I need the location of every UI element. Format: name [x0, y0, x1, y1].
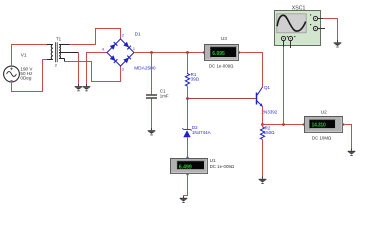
value label U3 DC: [209, 63, 234, 68]
resistor R1: [185, 73, 189, 86]
wire scope probe to emitter rail: [283, 47, 285, 125]
wire R1 to zener node: [187, 86, 189, 129]
label V1: [21, 53, 27, 58]
svg-text:DC 1e-009Ω: DC 1e-009Ω: [209, 63, 234, 68]
label U2: [321, 110, 327, 115]
svg-text:1mF: 1mF: [160, 94, 169, 99]
wire C1 to ground: [151, 99, 153, 128]
value label U1 DC: [210, 164, 235, 169]
wire base node to Q1 base: [188, 98, 256, 100]
ground below C1: [148, 128, 156, 135]
label T1: [56, 36, 62, 41]
label D1: [135, 31, 141, 37]
junction base node: [186, 97, 189, 100]
svg-text:D1: D1: [135, 31, 141, 37]
svg-text:150Ω: 150Ω: [264, 130, 276, 135]
resistor R2: [260, 127, 264, 140]
svg-text:4: 4: [102, 47, 104, 51]
svg-text:2N3392: 2N3392: [262, 110, 278, 115]
bridge pin 3 label: [122, 68, 124, 72]
svg-text:6.499: 6.499: [179, 165, 192, 171]
label D2: [192, 125, 198, 130]
svg-text:1N4744A: 1N4744A: [192, 130, 211, 135]
value label 50 Hz: [20, 71, 33, 76]
svg-text:2: 2: [55, 63, 58, 68]
multimeter U1: [171, 157, 208, 175]
wire V1 bottom to transformer primary bottom: [12, 60, 48, 92]
ground below U1: [180, 196, 188, 203]
value label MDA2500: [134, 66, 156, 72]
label R1: [191, 72, 197, 77]
wire emitter to R2: [262, 125, 264, 127]
wire Q1 emitter to rail: [262, 107, 264, 125]
bridge rectifier D1: [107, 39, 134, 66]
svg-text:2: 2: [122, 33, 124, 37]
label Q1: [264, 85, 271, 90]
svg-text:14.310: 14.310: [312, 123, 327, 129]
ground right of U2: [348, 149, 356, 156]
transistor Q1: [257, 87, 263, 107]
wire R2 to ground: [262, 139, 264, 176]
svg-text:3: 3: [122, 68, 124, 72]
multimeter U3: [203, 45, 240, 61]
wire bridge output rail to U3: [134, 52, 205, 54]
value label U2 DC: [312, 135, 332, 140]
wire V1 top to transformer primary top: [12, 45, 48, 67]
capacitor C1: [146, 95, 157, 98]
svg-text:U2: U2: [321, 110, 327, 115]
transformer pin label 2: [55, 63, 58, 68]
svg-text:XSC1: XSC1: [292, 5, 306, 11]
wire center tap to ground: [78, 53, 80, 84]
ground scope: [334, 40, 342, 47]
junction probe: [282, 123, 285, 126]
junction emitter: [261, 123, 264, 126]
wire U1 to ground: [184, 175, 188, 195]
svg-text:DC 10MΩ: DC 10MΩ: [312, 135, 332, 140]
value label 1mF: [160, 94, 169, 99]
multimeter U2: [303, 117, 344, 133]
wire U2 to ground: [344, 125, 351, 149]
wire secondary bottom to bridge bottom: [65, 62, 121, 82]
wire bridge left output to ground: [87, 53, 108, 84]
svg-text:T1: T1: [56, 36, 62, 41]
junction C1: [150, 51, 153, 54]
value label 2N3392: [262, 110, 278, 115]
wire rail to C1: [151, 53, 153, 95]
ground center tap: [75, 84, 83, 91]
label U1: [210, 158, 216, 163]
label C1: [160, 89, 166, 94]
ground below R2: [259, 177, 267, 184]
svg-text:39Ω: 39Ω: [191, 76, 200, 81]
label R2: [265, 125, 271, 130]
oscilloscope XSC1: [275, 11, 326, 49]
value label 0Deg: [20, 76, 31, 81]
wire rail to R1: [187, 53, 189, 73]
svg-text:1: 1: [133, 47, 135, 51]
wire emitter rail to U2: [263, 124, 305, 126]
ground bridge negative: [83, 84, 91, 91]
label U3: [221, 36, 227, 41]
svg-text:MDA2500: MDA2500: [134, 66, 156, 72]
wire scope ground terminal: [323, 19, 338, 41]
bridge pin 1 label: [133, 47, 135, 51]
wire secondary top to bridge top: [70, 29, 121, 45]
svg-text:Q1: Q1: [264, 85, 271, 90]
svg-text:0Deg: 0Deg: [20, 76, 31, 81]
svg-text:U1: U1: [210, 158, 216, 163]
bridge pin 4 label: [102, 47, 104, 51]
value label 39ohm: [191, 76, 200, 81]
transformer T1: [47, 42, 79, 62]
value label 1N4744A: [192, 130, 211, 135]
value label 190 V: [20, 66, 33, 71]
junction R1: [186, 51, 189, 54]
label XSC1: [292, 5, 306, 11]
wire U3 to Q1 collector: [240, 53, 262, 88]
svg-text:DC 1e-009Ω: DC 1e-009Ω: [210, 164, 235, 169]
wire zener to U1: [187, 137, 189, 158]
ac source V1: [4, 66, 20, 82]
svg-text:U3: U3: [221, 36, 227, 41]
svg-text:V1: V1: [21, 53, 27, 58]
bridge pin 2 label: [122, 33, 124, 37]
value label 150ohm: [264, 130, 276, 135]
svg-text:6.095: 6.095: [212, 51, 225, 57]
zener diode D2: [182, 128, 191, 137]
